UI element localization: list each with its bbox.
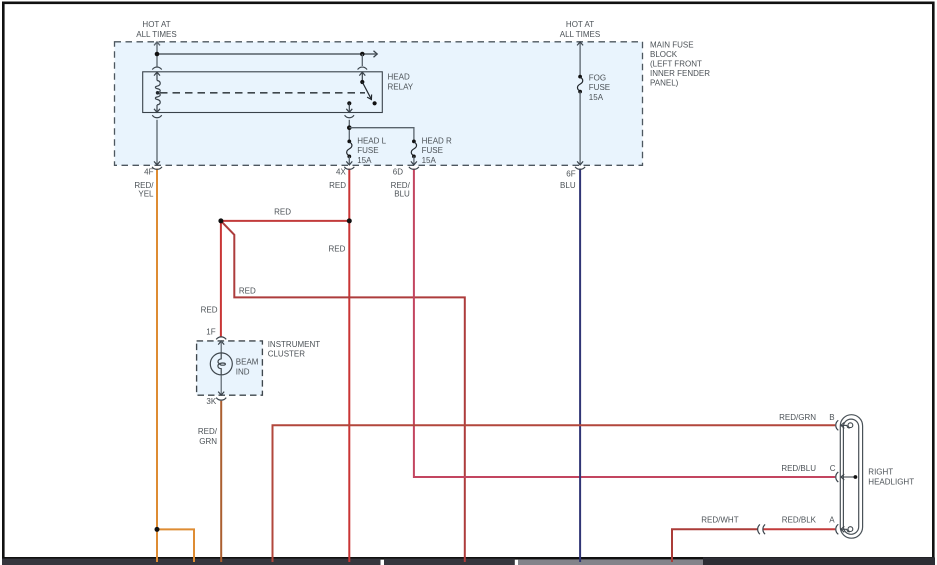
svg-text:MAIN FUSE: MAIN FUSE bbox=[650, 41, 694, 50]
node junction on RED/YEL bbox=[155, 527, 160, 532]
right headlight inner shell bbox=[843, 419, 858, 534]
svg-text:RED/GRN: RED/GRN bbox=[779, 413, 816, 422]
svg-text:RED: RED bbox=[239, 286, 256, 295]
svg-text:HOT AT: HOT AT bbox=[566, 20, 594, 29]
wire fog fuse to 6F arrow bbox=[577, 92, 583, 165]
svg-text:YEL: YEL bbox=[138, 189, 154, 198]
wire RED long run to right headlight low beam bbox=[221, 221, 465, 562]
connector cup 3K bbox=[216, 398, 226, 401]
relay output arrow bbox=[346, 103, 352, 112]
svg-text:RED/BLK: RED/BLK bbox=[782, 516, 817, 525]
connector cup 4F bbox=[152, 167, 162, 170]
svg-text:RED/BLU: RED/BLU bbox=[781, 464, 816, 473]
svg-text:FUSE: FUSE bbox=[357, 146, 378, 155]
connector cup above relay coil pin bbox=[152, 67, 161, 70]
bottom window bar segment 1 bbox=[2, 559, 381, 565]
relay switch blade arrowhead bbox=[367, 95, 372, 100]
wire RED/GRN to headlight B bbox=[273, 425, 836, 562]
svg-text:GRN: GRN bbox=[199, 437, 217, 446]
svg-text:FUSE: FUSE bbox=[589, 83, 610, 92]
wire RED down to 1F bbox=[220, 221, 222, 337]
svg-text:4F: 4F bbox=[144, 167, 153, 176]
connector cup C bbox=[836, 472, 839, 482]
inline connector on A wire bbox=[758, 524, 765, 534]
relay coil bbox=[155, 81, 160, 105]
label beam ind bbox=[236, 358, 259, 377]
svg-text:1F: 1F bbox=[206, 328, 215, 337]
svg-text:HEADLIGHT: HEADLIGHT bbox=[868, 478, 914, 487]
svg-text:IND: IND bbox=[236, 367, 250, 376]
svg-text:CLUSTER: CLUSTER bbox=[268, 350, 306, 359]
label wire red/yel bbox=[134, 181, 154, 198]
label head l fuse bbox=[357, 137, 386, 165]
wire BLU from 6F bbox=[579, 169, 581, 562]
wire head l fuse to 4X arrow bbox=[346, 156, 352, 165]
instrument cluster box bbox=[197, 341, 263, 395]
svg-text:RED/WHT: RED/WHT bbox=[701, 516, 738, 525]
svg-text:HOT AT: HOT AT bbox=[142, 20, 170, 29]
wire relay coil to 4F bbox=[156, 120, 158, 165]
node top bus at relay switch bbox=[360, 52, 365, 57]
lamp BEAM IND bulb bbox=[210, 353, 232, 375]
relay coil pin entry arrow bbox=[154, 72, 160, 80]
connector cup B bbox=[836, 420, 839, 430]
label fog fuse bbox=[589, 74, 610, 102]
connector cup 4X bbox=[344, 167, 354, 170]
wire RED/GRN from 3K bbox=[220, 401, 222, 562]
fuse FOG 15A bbox=[577, 75, 582, 94]
svg-text:15A: 15A bbox=[357, 156, 372, 165]
headlight common C bbox=[841, 474, 857, 480]
cluster entry arrow at 1F bbox=[218, 341, 224, 353]
svg-text:A: A bbox=[829, 516, 835, 525]
connector cup above relay switch pin bbox=[358, 67, 367, 70]
connector cup below relay switch bbox=[345, 115, 354, 118]
svg-text:FUSE: FUSE bbox=[422, 146, 443, 155]
relay mechanical linkage dashed bbox=[160, 92, 365, 94]
node relay switch pivot bbox=[360, 80, 364, 84]
svg-text:B: B bbox=[829, 413, 834, 422]
svg-text:6D: 6D bbox=[393, 167, 403, 176]
head relay box U1 bbox=[143, 72, 383, 113]
connector cup A bbox=[836, 524, 839, 534]
svg-text:C: C bbox=[830, 464, 836, 473]
svg-text:INNER FENDER: INNER FENDER bbox=[650, 69, 710, 78]
arrow into 4F bbox=[154, 161, 160, 165]
node top bus left bbox=[155, 52, 160, 57]
node coil to linkage bbox=[156, 91, 160, 95]
label right headlight bbox=[868, 467, 914, 486]
connector cup 1F wire end bbox=[216, 337, 226, 340]
main fuse block box bbox=[115, 42, 643, 166]
label main fuse block bbox=[650, 41, 710, 88]
svg-text:FOG: FOG bbox=[589, 74, 606, 83]
label hot at all times left bbox=[136, 20, 176, 39]
svg-text:RED: RED bbox=[329, 181, 346, 190]
wire RED/BLU from 6D to headlight C bbox=[414, 169, 835, 477]
svg-text:RED: RED bbox=[274, 208, 291, 217]
bottom window bar segment 3 bbox=[518, 559, 703, 565]
svg-text:BEAM: BEAM bbox=[236, 358, 259, 367]
wire RED/YEL branch at bottom bbox=[157, 529, 194, 562]
svg-text:(LEFT FRONT: (LEFT FRONT bbox=[650, 60, 702, 69]
headlight high beam filament B bbox=[841, 422, 853, 428]
node relay switch throw contact bbox=[373, 101, 377, 105]
wire relay to fuses bbox=[348, 120, 350, 142]
wire head r fuse to 6D arrow bbox=[411, 156, 417, 165]
svg-text:HEAD: HEAD bbox=[388, 73, 410, 82]
wire RED from 4X bbox=[348, 169, 350, 562]
right headlight outer shell bbox=[840, 415, 862, 539]
label wire red/grn at 3K bbox=[198, 427, 218, 446]
wire branch to head r fuse bbox=[349, 128, 414, 142]
wire RED horizontal to dimmer node bbox=[221, 220, 349, 222]
relay coil exit arrow bbox=[154, 105, 160, 112]
bottom window bar segment 2 bbox=[384, 559, 515, 565]
wire RED/YEL from 4F bbox=[156, 169, 158, 562]
label head relay bbox=[388, 73, 414, 92]
fuse HEAD L 15A bbox=[347, 140, 352, 159]
svg-text:BLOCK: BLOCK bbox=[650, 50, 678, 59]
cluster exit wire to 3K bbox=[218, 375, 224, 395]
label head r fuse bbox=[422, 137, 452, 165]
relay switch blade bbox=[362, 82, 371, 99]
relay switch pin entry arrow bbox=[359, 72, 365, 82]
arrow continuation of top bus bbox=[374, 51, 378, 57]
node dimmer junction bbox=[218, 218, 223, 223]
svg-text:6F: 6F bbox=[566, 169, 575, 178]
svg-text:RELAY: RELAY bbox=[388, 83, 414, 92]
wire top bus into relay switch bbox=[361, 54, 363, 66]
node on RED at 4X column bbox=[347, 218, 352, 223]
node fuse branch bbox=[347, 125, 352, 130]
svg-text:ALL TIMES: ALL TIMES bbox=[560, 30, 600, 39]
connector cup 6F bbox=[575, 167, 585, 170]
svg-text:BLU: BLU bbox=[394, 189, 410, 198]
svg-text:15A: 15A bbox=[422, 156, 437, 165]
bottom window bar segment 4 bbox=[703, 557, 935, 565]
fuse HEAD R 15A bbox=[411, 140, 416, 159]
wire RED/WHT from bottom bbox=[672, 529, 758, 562]
svg-text:RED: RED bbox=[201, 306, 218, 315]
svg-text:RED: RED bbox=[329, 245, 346, 254]
node relay switch output contact bbox=[347, 101, 351, 105]
connector cup below relay coil bbox=[152, 115, 161, 118]
svg-text:RED/: RED/ bbox=[198, 427, 218, 436]
svg-text:3K: 3K bbox=[206, 397, 216, 406]
wire hot feed left entry bbox=[154, 42, 160, 67]
svg-text:HEAD L: HEAD L bbox=[357, 137, 386, 146]
svg-text:INSTRUMENT: INSTRUMENT bbox=[268, 340, 321, 349]
label hot at all times right bbox=[560, 20, 600, 39]
label wire red/blu at 6D bbox=[391, 181, 411, 198]
svg-text:15A: 15A bbox=[589, 93, 604, 102]
svg-text:4X: 4X bbox=[336, 167, 346, 176]
wire hot feed fog entry bbox=[577, 42, 583, 77]
svg-text:HEAD R: HEAD R bbox=[422, 137, 452, 146]
wire top bus to relay bbox=[157, 53, 376, 55]
connector cup 6D bbox=[409, 167, 419, 170]
svg-text:RIGHT: RIGHT bbox=[868, 467, 893, 476]
headlight low beam filament A bbox=[841, 526, 853, 532]
wire RED/BLK to headlight A bbox=[763, 528, 835, 530]
svg-text:PANEL): PANEL) bbox=[650, 79, 679, 88]
svg-text:ALL TIMES: ALL TIMES bbox=[136, 30, 176, 39]
svg-text:BLU: BLU bbox=[560, 181, 576, 190]
label instrument cluster bbox=[268, 340, 321, 359]
